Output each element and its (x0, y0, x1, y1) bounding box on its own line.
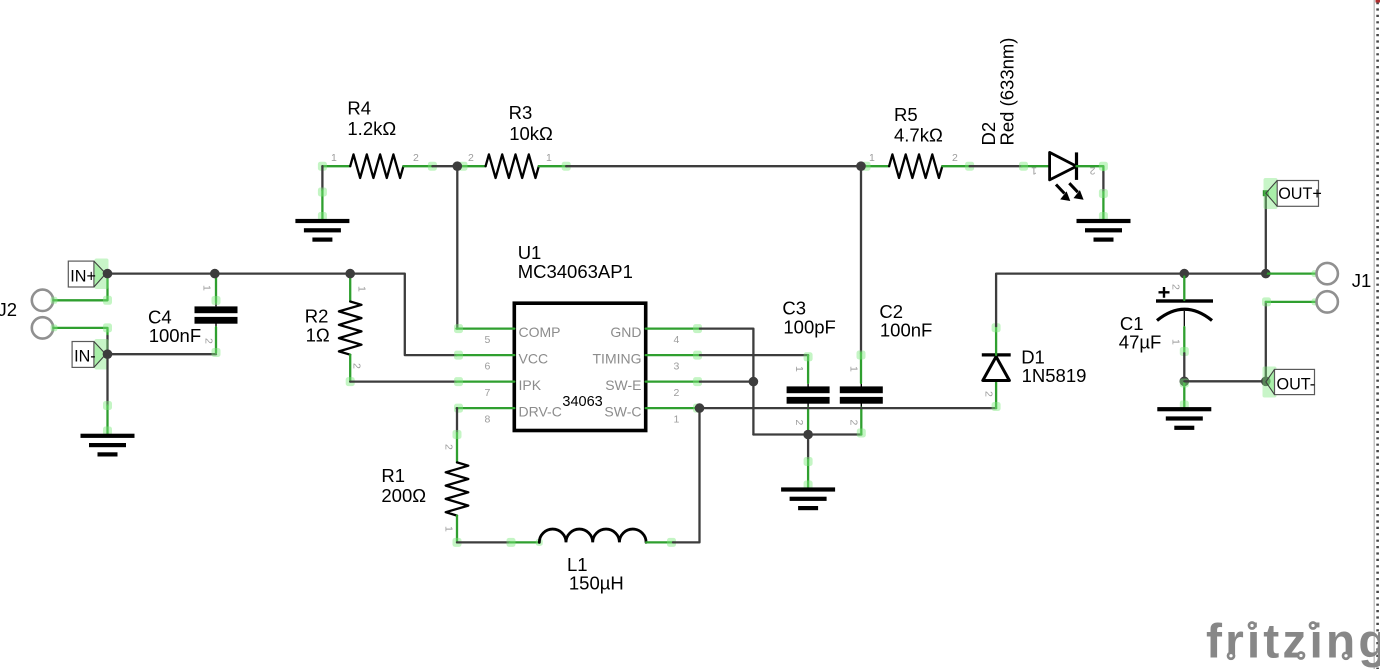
pin label 1 R4 (331, 152, 337, 164)
pin 1 R2 (349, 276, 351, 302)
pin label 2 R1 (443, 444, 455, 450)
svg-text:34063: 34063 (562, 394, 602, 410)
pin 2 R2 (349, 355, 351, 382)
pin label SW-E U1 (605, 377, 641, 393)
wire SW-E to vertical (700, 380, 754, 382)
svg-text:R2: R2 (305, 305, 329, 326)
wire ground GND2 lead (321, 190, 323, 219)
svg-text:1: 1 (201, 285, 213, 291)
glow R4 pin2 (428, 162, 437, 171)
svg-text:2: 2 (793, 420, 805, 426)
wire R1 to L1 (457, 541, 510, 543)
wire J2 pin1 to IN+ node (54, 276, 108, 300)
glow D2 pin1 (1019, 162, 1028, 171)
svg-text:VCC: VCC (519, 351, 549, 367)
pin label SW-C U1 (604, 404, 641, 420)
canvas edge line (1373, 0, 1375, 669)
pin label 1 R2 (356, 286, 368, 292)
pin label DRV-C U1 (519, 404, 562, 420)
pin 2 C3 (807, 408, 809, 435)
pin 1 C3 (807, 355, 809, 383)
svg-text:150µH: 150µH (569, 573, 624, 594)
pin label GND U1 (610, 324, 641, 340)
wire D1 to output rail (996, 274, 1184, 327)
glow L1 pin1 (507, 538, 543, 547)
pin 1 C1 (1183, 327, 1185, 353)
svg-text:1: 1 (869, 152, 875, 164)
pin label 2 R2 (351, 363, 363, 369)
wire J1 pin2 vertical (1265, 302, 1267, 381)
glow C4 pin1 (212, 296, 221, 305)
glow ground GND5 (1180, 379, 1189, 410)
glow R4 pin1 (318, 162, 327, 171)
net flag IN- (72, 339, 108, 370)
pin label 1 C3 (793, 366, 805, 372)
label D2 (978, 38, 1018, 146)
wire C1 to OUT- rail (1183, 353, 1185, 381)
svg-text:10kΩ: 10kΩ (509, 123, 553, 144)
pin label 2 C4 (203, 338, 215, 344)
wire J2 pin2 lead (54, 328, 108, 336)
glow U1 pin 1 (693, 404, 702, 413)
wire J2 pin2 to IN- node (106, 336, 108, 354)
svg-text:R1: R1 (381, 465, 405, 486)
label R1 (381, 465, 426, 506)
wire GND pin to vertical (700, 329, 754, 435)
label C2 (879, 301, 932, 340)
svg-text:100nF: 100nF (149, 325, 201, 346)
junction R4-R3 (453, 161, 463, 171)
glow U1 pin 2 (693, 377, 702, 386)
wire DRV-C corner (456, 408, 458, 433)
svg-text:2: 2 (203, 338, 215, 344)
glow U1 pin 6 (454, 351, 463, 360)
svg-text:J2: J2 (0, 299, 17, 320)
pin 2 D1 (995, 381, 997, 409)
junction glow J2 pin2 bend (51, 323, 113, 332)
pin 4 U1 GND lead (646, 327, 700, 329)
net flag OUT+ (1264, 178, 1322, 209)
ground under C3 (781, 487, 835, 510)
glow R3 pin2 (459, 162, 468, 171)
svg-text:SW-E: SW-E (605, 377, 641, 393)
wire J1 pin2 lead (1266, 301, 1317, 303)
svg-text:1N5819: 1N5819 (1022, 365, 1087, 386)
wire C1 to OUT junction (1184, 272, 1266, 274)
svg-text:4.7kΩ: 4.7kΩ (894, 125, 943, 146)
wire R2 to VCC corner (350, 274, 456, 356)
resistor R3 (486, 154, 539, 178)
svg-text:IPK: IPK (519, 377, 542, 393)
junction IN- (103, 349, 113, 359)
glow R1 pin2 (453, 430, 462, 439)
svg-text:TIMING: TIMING (593, 351, 642, 367)
pin label COMP U1 (519, 324, 561, 340)
pin label 2 D2 (1090, 165, 1096, 177)
glow R1 pin1 (453, 538, 462, 547)
svg-text:100nF: 100nF (880, 319, 932, 340)
op-amp U1 MC34063AP1 box (514, 303, 645, 430)
wire C1 to OUT- (1184, 380, 1266, 382)
pin label 1 C4 (201, 285, 213, 291)
pin label 2 R5 (952, 152, 958, 164)
svg-text:1: 1 (443, 526, 455, 532)
junction C1 top (1180, 269, 1190, 279)
pin 3 U1 TIMING lead (646, 354, 700, 356)
glow U1 pin 3 (693, 351, 702, 360)
resistor R1 (446, 462, 469, 515)
svg-text:1: 1 (356, 286, 368, 292)
glow U1 pin 5 (454, 324, 463, 333)
glow ground GND2 (318, 188, 327, 222)
svg-text:R5: R5 (894, 104, 918, 125)
wire R4 to junction (432, 165, 457, 167)
junction IN+ (103, 269, 113, 279)
glow C3 pin1 (804, 352, 813, 361)
glow C2 pin1 (857, 351, 866, 360)
glow J1 pin2 wire (1262, 297, 1319, 306)
wire R3 to R5 junction (566, 165, 861, 167)
pin 1 R4 (322, 165, 350, 167)
svg-text:100pF: 100pF (783, 316, 835, 337)
pin label 2 C2 (848, 420, 860, 426)
pin 1 R1 (456, 516, 458, 543)
connector J2 (0, 290, 53, 339)
svg-text:GND: GND (610, 324, 641, 340)
pin label 2 C1 (1170, 284, 1182, 290)
diode D1 (982, 355, 1011, 381)
svg-text:SW-C: SW-C (604, 404, 641, 420)
resistor R5 (889, 154, 942, 178)
pin number 1 U1 (674, 414, 680, 426)
LED D2 (1050, 152, 1084, 201)
svg-text:7: 7 (485, 387, 491, 399)
pin label 2 D1 (983, 391, 995, 397)
resistor R4 (350, 154, 403, 178)
glow R2 pin2 (346, 377, 355, 386)
pin number 2 U1 (674, 387, 680, 399)
svg-text:DRV-C: DRV-C (519, 404, 562, 420)
wire ground GND1 lead (106, 406, 108, 434)
svg-text:2: 2 (674, 387, 680, 399)
pin 2 R4 (403, 165, 432, 167)
glow ground GND3 (804, 457, 813, 490)
glow C2 pin2 (857, 429, 866, 438)
wire junction to ground GND3 (807, 435, 809, 460)
svg-text:2: 2 (468, 152, 474, 164)
junction R5-C2 (856, 161, 866, 171)
wire R5 to D2 (970, 165, 1022, 167)
label L1 (567, 554, 624, 594)
glow R5 pin2 (965, 162, 974, 171)
glow U1 pin 7 (454, 377, 463, 386)
pin 2 D2 (1077, 166, 1104, 172)
capacitor C1 (1156, 287, 1213, 328)
glow D1 pin1 (992, 323, 1001, 332)
label R2 (305, 305, 330, 345)
label R5 (894, 104, 943, 146)
pin 1 D1 (995, 326, 997, 355)
junction SW-E (749, 377, 759, 387)
pin number 6 U1 (485, 361, 491, 373)
junction SW-C (695, 403, 705, 413)
svg-text:2: 2 (983, 391, 995, 397)
pin 1 C4 (215, 277, 217, 303)
glow U1 pin 4 (693, 324, 702, 333)
pin 2 R1 (456, 433, 458, 462)
label U1 (518, 242, 633, 282)
svg-text:2: 2 (351, 363, 363, 369)
connector J1 (1317, 263, 1372, 313)
svg-text:C3: C3 (782, 297, 806, 318)
svg-text:Red (633nm): Red (633nm) (997, 38, 1018, 146)
pin 1 R3 (539, 165, 566, 167)
svg-text:IN+: IN+ (70, 267, 96, 285)
svg-text:1: 1 (793, 366, 805, 372)
pin 2 U1 SW-E lead (646, 380, 700, 382)
pin 2 C1 (1183, 277, 1185, 301)
ground under C1 (1157, 407, 1211, 430)
junction OUT- (1261, 377, 1271, 387)
pin label 1 R1 (443, 526, 455, 532)
svg-text:3: 3 (674, 361, 680, 373)
glow J1 pin1 wire (1312, 270, 1319, 277)
glow U1 pin 8 (454, 404, 463, 413)
wire D2 to ground (1102, 172, 1104, 192)
wire R4 pin1 to ground (321, 166, 323, 190)
wire SW-C to D1 (700, 407, 997, 409)
pin 2 L1 (646, 541, 673, 543)
svg-text:OUT-: OUT- (1277, 376, 1316, 394)
resistor R2 (339, 302, 362, 355)
glow ground GND1 (103, 401, 112, 436)
svg-text:1: 1 (546, 152, 552, 164)
junction C3 ground (803, 430, 813, 440)
wire ground GND3 lead (807, 460, 809, 488)
ground under R4 (295, 219, 349, 242)
pin label VCC U1 (519, 351, 549, 367)
svg-text:R4: R4 (347, 98, 371, 119)
net flag IN+ (68, 259, 108, 290)
wire IN+ to C4 (108, 272, 215, 274)
pin 2 C4 (215, 327, 217, 352)
pin label 1 R3 (546, 152, 552, 164)
wire R2 to IPK (350, 380, 456, 382)
svg-text:J1: J1 (1352, 270, 1372, 291)
glow C4 pin2 (212, 348, 221, 357)
glow C1 pin1 (1180, 347, 1189, 356)
junction C4 top (210, 269, 220, 279)
ground under D2 (1077, 219, 1131, 242)
capacitor C2 (840, 383, 883, 409)
label R4 (347, 98, 396, 139)
edge dashed artifacts (1376, 0, 1380, 669)
pin 5 U1 COMP lead (457, 327, 515, 329)
capacitor C4 (195, 302, 238, 328)
pin 1 C2 (860, 353, 862, 383)
pin 1 L1 (510, 541, 540, 543)
wire TIMING to C3 (700, 354, 808, 356)
junction OUT rail (1261, 269, 1271, 279)
svg-text:1.2kΩ: 1.2kΩ (347, 118, 396, 139)
wire ground GND5 lead (1183, 381, 1185, 407)
svg-text:5: 5 (485, 334, 491, 346)
wire junction to C2 (860, 166, 862, 353)
wire OUT+ to junction (1265, 196, 1267, 274)
svg-text:8: 8 (485, 414, 491, 426)
label R3 (509, 102, 553, 144)
svg-text:IN-: IN- (74, 347, 96, 365)
glow L1 pin2 (667, 538, 676, 547)
pin label IPK U1 (519, 377, 542, 393)
wire junction to J1 pin1 (1266, 272, 1317, 274)
pin 2 R5 (942, 165, 969, 167)
pin 1 R5 (863, 165, 889, 167)
wire C4 to R2 (215, 272, 350, 274)
pin label TIMING U1 (593, 351, 642, 367)
svg-text:2: 2 (1170, 284, 1182, 290)
pin number 3 U1 (674, 361, 680, 373)
wire ground GND4 lead (1102, 192, 1104, 219)
junction C1 bottom (1180, 377, 1190, 387)
svg-text:MC34063AP1: MC34063AP1 (518, 261, 633, 282)
pin label 2 R3 (468, 152, 474, 164)
glow D2 pin2 (1099, 162, 1108, 171)
label C1 (1119, 313, 1162, 353)
glow R3 pin1 (562, 162, 571, 171)
pin label 2 R4 (413, 152, 419, 164)
net flag OUT- (1263, 367, 1316, 398)
pin number 4 U1 (674, 334, 680, 346)
svg-text:2: 2 (848, 420, 860, 426)
svg-text:47µF: 47µF (1119, 332, 1162, 353)
ground under IN- (81, 434, 135, 457)
glow ground GND4 (1099, 189, 1108, 221)
svg-text:1: 1 (1170, 339, 1182, 345)
glow D1 pin2 (992, 402, 1001, 411)
pin label 2 C3 (793, 420, 805, 426)
svg-text:1Ω: 1Ω (306, 325, 330, 346)
svg-text:fritzing: fritzing (1206, 616, 1380, 669)
label D1 (1021, 347, 1086, 387)
label C4 (148, 306, 201, 346)
wire bottom rail (753, 433, 861, 435)
svg-text:2: 2 (952, 152, 958, 164)
svg-text:4: 4 (674, 334, 680, 346)
pin 1 U1 SW-C lead (646, 407, 700, 409)
pin number 7 U1 (485, 387, 491, 399)
inductor L1 (539, 529, 646, 542)
pin 6 U1 VCC lead (457, 354, 515, 356)
pin 2 C2 (860, 408, 862, 435)
pin 7 U1 IPK lead (457, 380, 515, 382)
label C3 (782, 297, 835, 337)
svg-text:R3: R3 (509, 102, 533, 123)
svg-text:200Ω: 200Ω (381, 485, 426, 506)
svg-text:6: 6 (485, 361, 491, 373)
wire IN- to ground (106, 354, 108, 405)
svg-text:1: 1 (674, 414, 680, 426)
junction glow J2 pin1 bend (51, 296, 113, 305)
pin label 1 C1 (1170, 339, 1182, 345)
pin label 1 D2 (1031, 165, 1037, 177)
pin 8 U1 DRV-C lead (457, 407, 515, 409)
junction R2 top (345, 269, 355, 279)
svg-text:2: 2 (413, 152, 419, 164)
capacitor C3 (787, 383, 830, 409)
svg-text:1: 1 (848, 366, 860, 372)
pin 2 R3 (460, 165, 486, 167)
svg-text:COMP: COMP (519, 324, 561, 340)
svg-text:OUT+: OUT+ (1278, 185, 1322, 203)
pin label 1 C2 (848, 366, 860, 372)
wire junction to COMP (456, 166, 458, 328)
wire IN- to C4 pin2 (108, 353, 217, 355)
node OUT+ tip (1263, 190, 1269, 196)
svg-text:1: 1 (1031, 165, 1037, 177)
pin 1 D2 (1022, 165, 1050, 167)
svg-text:2: 2 (443, 444, 455, 450)
wire L1 to SW-C (673, 408, 700, 542)
fritzing watermark (1206, 616, 1380, 669)
glow R5 pin1 (862, 162, 871, 171)
pin number 5 U1 (485, 334, 491, 346)
pin number 8 U1 (485, 414, 491, 426)
svg-text:1: 1 (331, 152, 337, 164)
pin label 1 R5 (869, 152, 875, 164)
